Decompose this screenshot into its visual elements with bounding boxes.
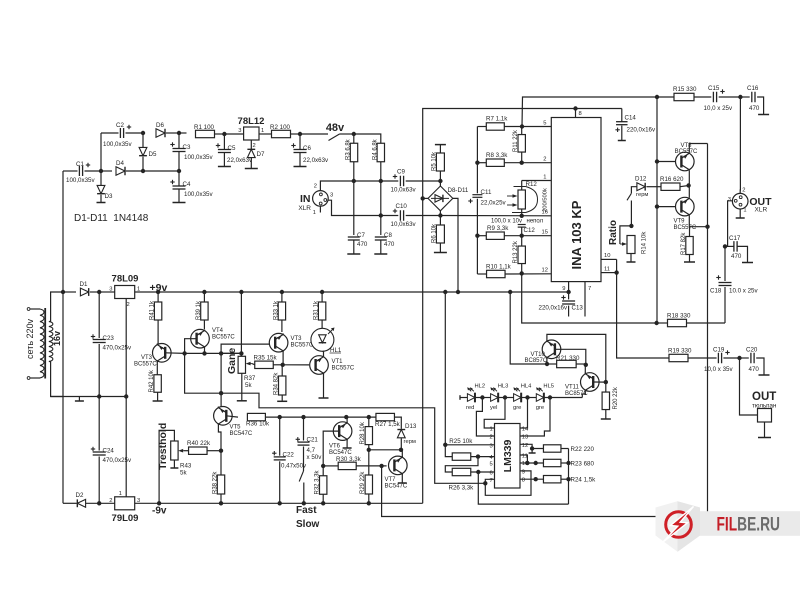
wire C18 column from C17 node <box>724 246 726 281</box>
node VT8 base <box>655 159 659 163</box>
wire VT11 base to R20 node <box>593 381 606 383</box>
resistor R28 10k <box>365 427 372 445</box>
ratio switch <box>627 193 631 200</box>
wire R33 top lead <box>281 292 283 302</box>
svg-text:48v: 48v <box>326 122 345 134</box>
wire R43 wiper to R40 <box>184 450 189 452</box>
svg-text:R42 10k: R42 10k <box>149 369 155 392</box>
capacitor C3 <box>173 148 186 150</box>
wire secondary top to +rail <box>49 292 63 322</box>
ground under R6 <box>434 252 447 254</box>
wire secondary bottom to ground rail <box>49 362 63 397</box>
wire XLR pin3 to line y215.5 <box>328 200 381 215</box>
node VT10/R21 <box>545 362 549 366</box>
svg-text:R20 22k: R20 22k <box>613 386 619 409</box>
resistor R25 10k <box>452 453 471 460</box>
capacitor C5 <box>218 149 231 151</box>
svg-text:16v: 16v <box>52 331 62 346</box>
wire R5 bottom to bridge top <box>439 171 441 181</box>
capacitor C17 <box>733 241 735 252</box>
wire C1 right to junction <box>85 170 102 172</box>
wire R28 bottom to D13 row <box>369 445 401 450</box>
svg-text:BC557C: BC557C <box>675 149 698 155</box>
wire D5 top lead <box>142 133 144 147</box>
regulator 79L09 <box>115 497 135 510</box>
LED HL1 <box>311 328 334 351</box>
svg-text:470: 470 <box>749 366 760 373</box>
svg-text:R28 10k: R28 10k <box>360 421 366 444</box>
svg-text:R14 10k: R14 10k <box>642 231 648 254</box>
wire R3 bottom to pin2 line <box>353 162 355 181</box>
svg-text:100,0x35v: 100,0x35v <box>184 191 213 198</box>
wire bridge left to -9v vertical <box>423 197 428 199</box>
svg-text:10,0x63v: 10,0x63v <box>391 187 417 194</box>
+9v rail y292 <box>158 291 568 293</box>
capacitor C10 <box>399 210 401 221</box>
pin 8 stub <box>575 109 577 118</box>
svg-text:470,0x25v: 470,0x25v <box>103 457 132 464</box>
svg-text:100,0x35v: 100,0x35v <box>103 141 132 148</box>
node R12/C12 on pin16 line <box>520 214 524 218</box>
node R23 left <box>534 461 538 465</box>
svg-text:220,0x16v: 220,0x16v <box>539 305 568 312</box>
wire C4 bottom lead <box>178 189 180 202</box>
node out/C16 <box>738 95 742 99</box>
pin 16 input line <box>440 215 551 217</box>
node C2/D5/D6 <box>141 131 145 135</box>
svg-text:7: 7 <box>588 286 591 292</box>
wire bus to R10 left <box>477 273 486 275</box>
wire R11 bottom lead <box>521 152 523 163</box>
LED chain start tick <box>459 395 461 400</box>
node R14 top <box>629 224 633 228</box>
svg-text:R23 680: R23 680 <box>571 461 595 468</box>
wire C20 right to ground <box>756 358 764 375</box>
svg-text:R22 220: R22 220 <box>571 446 595 453</box>
svg-text:C18: C18 <box>710 288 722 295</box>
diode D13 german <box>397 430 405 438</box>
IC INA 103 KP body <box>551 118 601 282</box>
wire D3 top lead <box>100 171 102 185</box>
svg-text:100,0x35v: 100,0x35v <box>66 177 95 184</box>
node C24 bottom <box>97 501 101 505</box>
trimmer R12 <box>518 190 525 209</box>
row wire y353.4 <box>185 352 242 354</box>
LED HL4 green <box>514 394 522 402</box>
svg-text:HL5: HL5 <box>543 384 554 390</box>
wire R13 bottom lead <box>521 264 523 274</box>
resistor R27 1,5k <box>376 413 395 420</box>
wire R42 bottom to ground <box>157 392 159 400</box>
node R4/pin3 line <box>379 213 383 217</box>
svg-text:3: 3 <box>109 287 112 293</box>
wire VT1 base from node <box>283 364 310 366</box>
vertical bus x657 R15..R18 <box>656 97 658 323</box>
wire yel tap to pin1 <box>484 398 505 429</box>
svg-text:R9 3,3k: R9 3,3k <box>487 225 509 232</box>
svg-text:5: 5 <box>489 462 492 468</box>
svg-text:D6: D6 <box>156 122 164 129</box>
capacitor C15 <box>712 92 714 103</box>
diode D12 <box>637 183 645 191</box>
wire XLR pin2 to signal line y181 <box>320 181 337 191</box>
node 48v/R3 <box>352 132 356 136</box>
capacitor C7 <box>348 236 360 238</box>
svg-text:D12: D12 <box>635 176 647 183</box>
R14 wiper loop with arrow <box>620 226 632 244</box>
svg-text:R18 330: R18 330 <box>667 313 691 320</box>
svg-text:red: red <box>466 405 474 411</box>
wire C8 top from pin3 line <box>380 216 382 236</box>
svg-text:C12: C12 <box>524 227 536 234</box>
svg-text:R26 3,3k: R26 3,3k <box>449 485 475 492</box>
capacitor C14 <box>621 109 623 122</box>
wire C9 to bridge top node <box>406 180 441 182</box>
svg-text:3: 3 <box>238 128 241 134</box>
svg-text:1: 1 <box>543 175 546 181</box>
transformer T1 primary terminals <box>27 308 30 311</box>
wire VT5 base to R36 <box>226 416 238 417</box>
wire junction up to top rail <box>100 133 102 171</box>
svg-text:BC857C: BC857C <box>525 358 548 364</box>
pin 10 line to right drop <box>601 258 617 260</box>
wire VT8 base to x657 bus <box>657 161 675 163</box>
wire R32 bottom to rail <box>322 495 324 504</box>
resistor R36 10k <box>247 413 265 420</box>
node HL2/pin2 tap <box>480 395 484 399</box>
resistor R29 22k <box>365 475 372 494</box>
wire R13 top lead <box>521 236 523 246</box>
node R16/VT8/VT9 <box>686 183 690 187</box>
node C21 top <box>301 415 305 419</box>
node R26/pin6 <box>476 470 480 474</box>
wire R40 right to VT5 node <box>207 450 221 452</box>
svg-text:12: 12 <box>542 267 548 273</box>
resistor R41 1k <box>154 302 161 320</box>
svg-text:R3 6,8k: R3 6,8k <box>346 138 352 160</box>
wire R21 right to VT11 collector node <box>576 363 586 365</box>
wire HL3-HL4 <box>498 397 513 399</box>
transistor VT7 BC547C <box>389 456 408 475</box>
wire bridge right to +9v drop <box>453 198 458 292</box>
node C21 bottom <box>302 501 306 505</box>
wire 78L09 out to +9v rail <box>135 291 158 293</box>
wire pin11 drop <box>520 455 527 463</box>
wire R6 bottom lead <box>439 243 441 252</box>
svg-text:C1: C1 <box>76 161 84 168</box>
node VT3 base row <box>182 351 186 355</box>
svg-text:22,0x25v: 22,0x25v <box>481 200 507 207</box>
node R4 crossing pin2 line <box>379 179 383 183</box>
diode D6 <box>156 129 165 138</box>
svg-text:R39 1k: R39 1k <box>196 300 202 320</box>
resistor R21 330 <box>557 360 577 367</box>
wire R2 to C6 node <box>291 133 301 135</box>
wire R12 top to pin1 line <box>521 181 523 191</box>
ground under C8 <box>374 253 387 255</box>
svg-text:1: 1 <box>119 491 122 497</box>
svg-text:C9: C9 <box>397 169 405 176</box>
transistor VT5 BC547C <box>214 407 233 426</box>
svg-text:BC547C: BC547C <box>230 431 253 437</box>
svg-text:470: 470 <box>357 241 368 248</box>
wire chain start <box>460 397 467 399</box>
node D6/C3/R1 <box>177 131 181 135</box>
resistor R18 330 <box>668 319 687 326</box>
ground under C7 <box>347 253 360 255</box>
svg-text:R4 6,8k: R4 6,8k <box>372 138 378 160</box>
wire R34 bottom to ground <box>281 395 283 401</box>
wire C12 bottom to pin15 line <box>521 227 523 236</box>
wire D13 to node <box>400 438 402 450</box>
svg-text:D13: D13 <box>405 423 417 430</box>
svg-text:R29 22k: R29 22k <box>360 471 366 494</box>
svg-text:C20: C20 <box>746 347 758 354</box>
ground under C4 <box>173 202 186 204</box>
wire VT4 base loop <box>185 339 197 354</box>
svg-text:11: 11 <box>604 267 610 273</box>
wire R29 bottom to rail <box>368 494 370 503</box>
node VT4 row <box>202 351 206 355</box>
resistor R35 15k <box>255 361 274 368</box>
svg-text:220,0x16v: 220,0x16v <box>627 127 656 134</box>
wire R36 right rail y417 <box>265 416 375 418</box>
wire C7 top from pin2 line <box>353 181 355 235</box>
svg-text:D4: D4 <box>116 160 124 167</box>
wire RCA to ground <box>764 422 766 437</box>
svg-text:2: 2 <box>742 188 745 194</box>
capacitor C18 <box>716 277 720 279</box>
svg-text:R12: R12 <box>526 181 538 188</box>
svg-text:R17 82k: R17 82k <box>681 232 687 255</box>
svg-text:BC557C: BC557C <box>291 343 314 349</box>
transistor VT9 BC557C <box>676 197 695 216</box>
svg-text:10: 10 <box>604 253 610 259</box>
svg-text:2: 2 <box>253 143 256 149</box>
node HL3/pin1 tap <box>503 395 507 399</box>
svg-text:VT11: VT11 <box>565 385 580 391</box>
node VT6 collector <box>344 415 348 419</box>
wireA VT3 emitter chain to LM339 area <box>185 353 486 483</box>
wire to R15 <box>657 96 674 98</box>
node 78L09 gnd <box>124 394 128 398</box>
LM339 V+ vertical from +9v rail <box>444 292 446 445</box>
node R8/R11 <box>520 161 524 165</box>
node VT5 on wireA <box>219 391 223 395</box>
svg-text:BC557C: BC557C <box>212 335 235 341</box>
node VT9/R17/x707 <box>705 225 709 229</box>
wire R41 bottom to VT3 <box>157 320 159 344</box>
wire y323 to R18 <box>657 322 668 324</box>
wire D12 right to R16 <box>647 186 662 188</box>
svg-text:R40 22k: R40 22k <box>187 440 211 447</box>
node C22 top <box>278 415 282 419</box>
svg-text:R24 1,5k: R24 1,5k <box>571 477 597 484</box>
svg-text:VT7: VT7 <box>385 477 397 483</box>
node x657 R18 corner <box>654 321 658 325</box>
wire R28 top lead <box>368 417 370 427</box>
resistor R7 1,1k <box>486 123 504 130</box>
svg-text:D7: D7 <box>257 151 265 158</box>
resistor R42 10k <box>154 375 161 393</box>
resistor R32 3,3k <box>320 476 327 495</box>
wire D7 to ground <box>250 158 252 168</box>
node pin3/V+ <box>443 443 447 447</box>
wire VT9 base to x657 bus <box>657 206 675 208</box>
capacitor C13 <box>561 297 565 299</box>
node bus/R8 <box>475 161 479 165</box>
wire D5 bottom lead <box>142 157 144 171</box>
resistor R20 22k <box>602 392 609 410</box>
wire VT6 collector up to rail <box>346 417 348 422</box>
bridge inner diode <box>435 195 443 202</box>
wire C20 left lead <box>740 357 749 359</box>
node pin8 on rail <box>573 106 577 110</box>
wire pin4 node Z to R26 <box>445 457 478 472</box>
svg-text:R34 82k: R34 82k <box>274 372 280 395</box>
wire R10 right to pin12 <box>505 273 551 275</box>
wire R20 bottom to ground <box>605 410 607 419</box>
wire HL4-HL5 <box>521 397 536 399</box>
svg-text:R38 22k: R38 22k <box>212 471 218 494</box>
wire VT5 emitter down to R40 node <box>218 424 221 450</box>
svg-text:R1 100: R1 100 <box>194 124 215 131</box>
svg-text:R16 620: R16 620 <box>660 176 684 183</box>
svg-text:15: 15 <box>542 230 548 236</box>
wire ground rail to 79L09 pin1 <box>125 397 127 499</box>
wire pin6 node down to outer bottom <box>478 472 568 504</box>
wire R8 right to pin2 <box>504 162 551 164</box>
node wireA/pin7 <box>483 481 487 485</box>
wire bus to R7 left <box>477 126 486 128</box>
svg-text:R13 22k: R13 22k <box>513 240 519 263</box>
svg-text:C23: C23 <box>103 335 115 342</box>
wire V+ node down to R25 <box>445 445 452 457</box>
svg-text:R35 15k: R35 15k <box>254 355 278 362</box>
wire gre1 tap to pin14 <box>520 398 528 429</box>
svg-text:XLR: XLR <box>298 205 311 212</box>
svg-text:100,0 x 10v: 100,0 x 10v <box>491 219 522 225</box>
resistor R1 100 <box>196 130 215 137</box>
node R23 chain <box>566 461 570 465</box>
wire R9 right to pin15 <box>504 235 551 237</box>
resistor R38 22k <box>217 475 224 494</box>
wire R11 top lead <box>521 127 523 135</box>
resistor R11 22k <box>518 135 525 153</box>
capacitor C8 <box>375 236 387 238</box>
wire out node down to RCA <box>740 358 758 415</box>
resistor R33 1k <box>278 302 285 320</box>
wire R7 right to pin5 <box>504 126 551 128</box>
wire R22 right to chain <box>561 448 569 450</box>
capacitor C1 <box>78 166 80 176</box>
wire VT1 collector down to ground bar <box>323 374 325 398</box>
switch S1 48v <box>329 134 340 141</box>
wire VT8 collector down to R16 node <box>688 171 690 186</box>
svg-text:C13: C13 <box>572 305 584 312</box>
svg-text:R37: R37 <box>244 375 256 382</box>
svg-text:8: 8 <box>579 111 582 117</box>
svg-text:BC557C: BC557C <box>674 225 697 231</box>
svg-text:C15: C15 <box>708 85 720 92</box>
svg-text:5: 5 <box>543 121 546 127</box>
wire pin3 to V+ vertical <box>445 444 494 446</box>
wire R3 top lead <box>353 134 355 143</box>
svg-text:R36 10k: R36 10k <box>246 421 270 428</box>
wire gre2 tap to pin13 <box>520 398 550 437</box>
output connector OUT XLR <box>732 193 748 209</box>
svg-text:D2: D2 <box>76 492 84 499</box>
wire 78L12 out to R2 <box>259 133 272 135</box>
svg-text:D5: D5 <box>149 151 157 158</box>
wire bus to R8 left <box>477 162 486 164</box>
svg-text:VT5: VT5 <box>230 425 242 431</box>
feedback chain vertical x568.5 <box>568 449 570 505</box>
wire pin2 line R3..C9 <box>354 180 399 182</box>
node R24 chain <box>566 477 570 481</box>
wire VT9 emitter down to R17 row <box>689 216 707 227</box>
transformer primary winding <box>40 309 44 378</box>
wire VT11 collector up to R21 node <box>584 365 586 374</box>
svg-text:R2 100: R2 100 <box>270 124 291 131</box>
node R21 feed <box>508 290 512 294</box>
wire VT5 node to R38 <box>220 451 222 475</box>
resistor R31 1k <box>318 302 325 320</box>
capacitor C2 <box>119 128 121 138</box>
wiper wire to R35 <box>252 364 255 365</box>
node AC/D1 <box>61 290 65 294</box>
wire VT3 emitter down to R42 <box>156 361 158 375</box>
node C23 top <box>97 290 101 294</box>
wire to R21 <box>547 363 557 365</box>
svg-text:5k: 5k <box>180 470 187 477</box>
pin 7 stub <box>584 282 586 317</box>
wire VT9 collector up to R16 node <box>688 186 690 198</box>
node bridge left on vertical <box>421 196 425 200</box>
wire R5 top lead with rail tap <box>439 145 441 153</box>
node R7/R11/loop <box>520 124 524 128</box>
trimmer R37 5k <box>240 292 242 356</box>
wire D4 to D5 node <box>126 170 143 172</box>
wire 78L09 pin2 down to ground rail <box>125 299 127 397</box>
svg-text:1: 1 <box>261 128 264 134</box>
svg-text:сеть 220v: сеть 220v <box>25 318 35 359</box>
wire C17 left lead <box>725 245 734 247</box>
wire C15 to out node <box>719 96 741 98</box>
svg-text:470,0x25v: 470,0x25v <box>103 345 132 352</box>
node R2/C6 <box>298 132 302 136</box>
svg-text:IN: IN <box>300 193 311 205</box>
node D13/VT7 collector <box>399 448 403 452</box>
logo shield <box>656 501 701 551</box>
wire VT7 base node down to y516 line <box>382 466 708 517</box>
resistor R6 10k <box>436 225 444 243</box>
svg-text:R5 10k: R5 10k <box>432 151 438 171</box>
svg-text:22,0x63v: 22,0x63v <box>303 157 329 164</box>
svg-text:C17: C17 <box>729 235 741 242</box>
transistor VT3 BC557C <box>153 344 172 363</box>
resistor R8 3,3k <box>486 159 504 166</box>
resistor R34 82k <box>279 376 286 395</box>
svg-text:Slow: Slow <box>296 519 320 530</box>
svg-text:5k: 5k <box>245 382 252 389</box>
ground rail y396.5 <box>51 396 127 398</box>
svg-text:R7 1,1k: R7 1,1k <box>486 116 508 123</box>
node R38 on rail <box>219 501 223 505</box>
wire VT3b emitter stub <box>282 352 284 365</box>
node R40/VT5 <box>219 449 223 453</box>
ground under C6 <box>294 166 307 168</box>
